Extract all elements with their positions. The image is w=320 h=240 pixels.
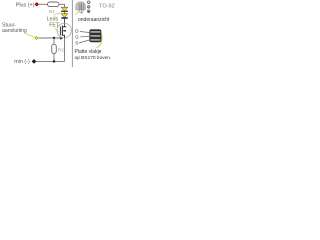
svg-text:R1: R1 <box>49 9 55 14</box>
junction R2/rail <box>53 60 56 63</box>
svg-text:TO-92: TO-92 <box>99 4 115 10</box>
callout onderaanzicht <box>76 11 80 16</box>
divider line <box>71 0 73 67</box>
wire to R2 <box>53 38 55 44</box>
svg-text:D: D <box>75 29 78 34</box>
svg-text:Plus (+): Plus (+) <box>16 3 35 9</box>
ground rail (min) <box>36 60 65 62</box>
gate bar <box>59 27 61 36</box>
channel bar <box>61 26 63 37</box>
LED D1 <box>61 7 68 11</box>
resistor R2 <box>52 44 57 53</box>
svg-text:onderaanzicht: onderaanzicht <box>78 17 110 23</box>
wire R1 to LEDs <box>59 4 65 7</box>
node plus terminal (red diamond) <box>35 2 39 6</box>
svg-text:min (-): min (-) <box>14 59 30 65</box>
svg-text:op BS170 boven.: op BS170 boven. <box>75 55 112 61</box>
node min terminal (black diamond) <box>32 59 36 63</box>
background <box>0 0 120 67</box>
callout platte vlakje <box>97 34 103 48</box>
svg-text:aansluiting: aansluiting <box>2 28 27 34</box>
package bottom view <box>90 30 101 42</box>
resistor R1 <box>48 2 60 7</box>
transistor T1 BS170 (MOSFET in circle) <box>57 23 71 37</box>
gate arrowhead <box>60 37 63 40</box>
source connection <box>63 35 65 38</box>
svg-text:FET: FET <box>49 23 60 29</box>
legs <box>79 10 83 14</box>
wire FET source down <box>64 38 66 61</box>
lead tips (circles) <box>87 1 90 4</box>
drain connection <box>64 24 66 27</box>
svg-text:R2: R2 <box>58 47 64 52</box>
wire plus to R1 <box>39 3 48 5</box>
LED D2 <box>61 14 68 18</box>
svg-text:G: G <box>75 35 79 40</box>
substrate arrow <box>63 30 66 32</box>
wire gate <box>39 37 61 39</box>
wire R2 to rail <box>53 54 55 62</box>
node gate terminal (yellow diamond) <box>35 36 38 39</box>
svg-text:Platte vlakje: Platte vlakje <box>75 49 102 55</box>
wire LED2 to FET drain <box>64 19 66 24</box>
junction gate/R2 <box>53 37 55 39</box>
wire between LEDs <box>64 12 66 14</box>
svg-text:S: S <box>75 41 78 46</box>
TO-92 package 3D view <box>76 2 86 10</box>
callout to gate node <box>24 33 35 37</box>
